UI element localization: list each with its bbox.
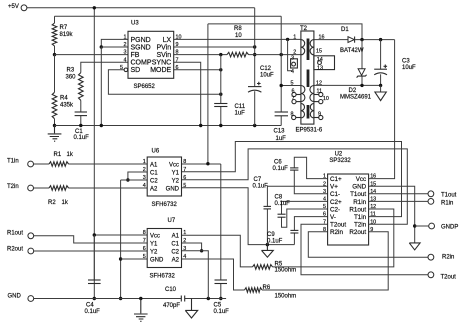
svg-text:D2: D2 (349, 88, 357, 94)
svg-text:470pF: 470pF (163, 303, 180, 309)
svg-text:C13: C13 (274, 129, 286, 135)
svg-text:8: 8 (183, 159, 186, 165)
svg-text:6: 6 (323, 212, 326, 218)
ground GNDP secondary top (C3) (375, 92, 386, 101)
svg-text:9: 9 (370, 227, 373, 233)
svg-text:R6: R6 (263, 285, 271, 291)
ground GNDP iso near C10 (185, 299, 197, 319)
svg-text:Vcc: Vcc (169, 162, 179, 168)
wire +5V rail top (27, 7, 255, 9)
resistor R3 (79, 73, 84, 101)
node C3 top dot (379, 38, 382, 41)
node Vcc viso dot (206, 162, 209, 165)
wire R5 to U2 R1out (273, 209, 394, 267)
wire primary ground rail y=125.5 (55, 125, 282, 127)
svg-text:C8: C8 (275, 195, 283, 201)
svg-text:Y1: Y1 (172, 170, 180, 176)
svg-text:R2out: R2out (349, 229, 366, 236)
svg-text:12: 12 (370, 204, 376, 210)
capacitor C1 (75, 111, 87, 113)
wire +5V to U7 Vcc (94, 234, 147, 236)
svg-text:12: 12 (316, 80, 322, 86)
wire feedback column down x=281.2 (280, 16, 282, 112)
svg-text:150ohm: 150ohm (275, 268, 297, 274)
winding arcs right (310, 40, 314, 55)
svg-text:8: 8 (176, 50, 179, 56)
node cathode rail dot (119, 297, 122, 300)
svg-text:4: 4 (291, 69, 294, 75)
node U7 cathode tie dot (200, 249, 203, 252)
svg-text:A1: A1 (150, 162, 158, 168)
wire SGND descent to ground rail (100, 47, 102, 126)
svg-text:SD: SD (131, 67, 141, 74)
GROUNDS (48, 92, 420, 321)
svg-text:R1in: R1in (441, 201, 453, 207)
WIRES-SECONDARY-TOP (314, 38, 395, 179)
svg-text:C2: C2 (171, 249, 179, 255)
diode D1 BAT42W (348, 37, 354, 43)
wire U2 pin15 GND to GNDP (369, 186, 415, 243)
DIODES (340, 27, 372, 101)
transformer core bars (307, 39, 310, 119)
wire U7 pin4 A2 to R6 (182, 259, 245, 290)
wire T2 pin16 to D1 anode (314, 39, 348, 41)
svg-text:4: 4 (323, 197, 326, 203)
terminal R2out (28, 248, 34, 254)
wire T2in to R2 (34, 187, 50, 189)
node PVin dot (253, 45, 256, 48)
zener D2 MMSZ4691 (358, 69, 365, 76)
wire C4 top stub (93, 235, 95, 280)
node GNDP wire dot (413, 224, 416, 227)
svg-text:8: 8 (323, 227, 326, 233)
svg-text:R3: R3 (67, 68, 75, 74)
WIRES-LOWER (34, 142, 429, 301)
node LX branch dot (286, 38, 289, 41)
wire secondary ground stub (380, 85, 382, 92)
svg-text:C7: C7 (254, 177, 262, 183)
WIRES-PRIMARY (27, 6, 362, 283)
wire D2 bottom stub (361, 76, 363, 86)
svg-text:FB: FB (131, 52, 140, 59)
svg-text:R4: R4 (60, 96, 68, 102)
svg-text:1: 1 (183, 230, 186, 236)
capacitor C7 (264, 205, 272, 207)
svg-text:C11: C11 (235, 104, 246, 110)
node pin5 dot (280, 84, 283, 87)
svg-text:T1out: T1out (350, 191, 366, 198)
node C4 rail dot (93, 297, 96, 300)
svg-text:13: 13 (317, 65, 323, 71)
ground GNDP right (U2 GND) (409, 243, 420, 250)
RESISTORS (48, 23, 296, 300)
svg-text:6: 6 (183, 175, 186, 181)
svg-text:9: 9 (318, 112, 321, 118)
svg-text:SYNC: SYNC (152, 60, 171, 67)
svg-text:R1out: R1out (349, 206, 366, 213)
svg-text:U7: U7 (168, 218, 176, 224)
svg-text:R8: R8 (234, 26, 242, 32)
wire isolated V+ rail y=23.9 (208, 24, 362, 40)
svg-text:7: 7 (183, 167, 186, 173)
wire C5 column x=220.8 (220, 164, 222, 280)
wire U3 pin9 PVin to +5V column (174, 46, 255, 48)
svg-text:7: 7 (143, 238, 146, 244)
svg-text:SGND: SGND (131, 44, 151, 51)
node FB junction dot (53, 53, 56, 56)
wire feedback rail y=15.9 from R7 top to x=281.2 (55, 15, 282, 17)
node SD-C11 dot (219, 93, 222, 96)
resistor R2 (49, 186, 69, 191)
svg-text:1uF: 1uF (276, 136, 287, 142)
capacitor C10 series in rail (180, 296, 182, 302)
svg-text:MMSZ4691: MMSZ4691 (340, 95, 372, 101)
svg-text:C5: C5 (214, 303, 222, 309)
svg-text:1k: 1k (62, 200, 69, 206)
wire U2 pin2 V+ to C7 (267, 186, 327, 206)
svg-text:U6: U6 (152, 149, 160, 155)
svg-text:R2in: R2in (442, 255, 454, 261)
svg-text:A2: A2 (150, 186, 158, 192)
terminal T2out (428, 272, 434, 278)
capacitor C9 (290, 229, 298, 231)
wire U7 pin1 A1 to R5 (182, 235, 253, 267)
wire T1in to R1 (34, 163, 50, 165)
node D2 bottom dot (360, 84, 363, 87)
terminal R1in (428, 199, 434, 205)
svg-text:SVin: SVin (157, 52, 172, 59)
terminal +5V (21, 5, 27, 11)
svg-text:A2: A2 (172, 257, 180, 263)
pins 6-7 stub circles left (292, 92, 296, 96)
svg-text:6: 6 (176, 65, 179, 71)
wire R1 to U6 pin1 (69, 163, 148, 165)
svg-text:C6: C6 (274, 160, 282, 166)
node C1 ground dot (79, 124, 82, 127)
wire C3 bottom stub (380, 74, 382, 85)
node SVin C11 dot (219, 53, 222, 56)
IC U2 SP3232 (323, 151, 376, 245)
svg-text:C1: C1 (150, 170, 158, 176)
svg-text:3: 3 (124, 50, 127, 56)
svg-text:T2in: T2in (7, 184, 19, 190)
node fb-column dot on pin2 line (280, 53, 283, 56)
svg-text:EP9531-6: EP9531-6 (296, 128, 323, 134)
svg-text:C10: C10 (165, 287, 177, 293)
pin 9 stub circle (319, 115, 323, 119)
node R4 ground dot (53, 124, 56, 127)
svg-text:T2out: T2out (441, 274, 457, 280)
svg-text:4: 4 (183, 254, 186, 260)
svg-text:10: 10 (370, 219, 376, 225)
node C11 rail dot (219, 124, 222, 127)
svg-text:4: 4 (143, 183, 146, 189)
svg-text:7: 7 (323, 219, 326, 225)
svg-text:T2out: T2out (330, 222, 346, 229)
pin 8 stub circle (292, 115, 296, 119)
svg-text:R2in: R2in (330, 229, 343, 236)
wire U3 pin10 LX to T2 pin1 (174, 38, 301, 40)
node SYNC ground dot (199, 124, 202, 127)
wire +5V vertical feed x=94.3 (93, 8, 95, 283)
wire C7 bottom to iso rail (266, 209, 268, 245)
svg-text:SP3232: SP3232 (329, 158, 351, 164)
svg-text:16: 16 (370, 174, 376, 180)
svg-text:0.1uF: 0.1uF (85, 309, 101, 315)
svg-text:819k: 819k (60, 32, 74, 38)
wire U3 pin6 MODE to C11 column (174, 69, 221, 71)
svg-text:U3: U3 (131, 21, 139, 27)
IC U6 SFH6732 (143, 149, 187, 209)
node C5 rail dot (219, 297, 222, 300)
resistor R5 (253, 265, 273, 270)
wire C13 bottom to ground rail end (280, 116, 282, 126)
svg-text:435k: 435k (60, 103, 74, 109)
node D2 top dot (360, 38, 363, 41)
CAPACITORS (74, 59, 417, 316)
wire C1 bottom to ground rail (80, 116, 82, 126)
svg-text:C1+: C1+ (330, 176, 342, 183)
svg-text:1: 1 (143, 159, 146, 165)
svg-text:U2: U2 (335, 151, 343, 157)
wire U6 pin7 Y1 route to U2 T1in (182, 142, 402, 217)
svg-text:0.1uF: 0.1uF (253, 184, 269, 190)
wire U2 pin14 T1out to terminal (369, 193, 428, 195)
wire D1 cathode to output node (355, 39, 395, 41)
wire C11 bottom to rail (220, 107, 222, 126)
terminal R2in (428, 254, 434, 260)
wire GNDP terminal (415, 225, 429, 227)
svg-text:D1: D1 (341, 27, 349, 33)
svg-text:GND: GND (166, 186, 180, 192)
svg-text:R7: R7 (60, 25, 68, 31)
svg-text:3: 3 (323, 189, 326, 195)
capacitor C13 (275, 111, 288, 113)
wire U3 pin5 SD route (108, 70, 220, 94)
svg-text:3: 3 (183, 246, 186, 252)
svg-text:0.1uF: 0.1uF (275, 201, 291, 207)
node SGND ground dot (100, 124, 103, 127)
svg-text:R1out: R1out (7, 231, 23, 237)
wire C3 top stub (380, 40, 382, 70)
svg-text:6: 6 (143, 246, 146, 252)
svg-text:C2: C2 (150, 178, 158, 184)
wire C11 column x=220.8 (220, 55, 222, 104)
svg-text:1: 1 (293, 35, 296, 41)
TRANSFORMER T2 EP9531-6 (291, 26, 335, 134)
svg-text:5: 5 (323, 204, 326, 210)
wire T2 pin5 to column (281, 85, 301, 87)
capacitor C11 (214, 103, 227, 105)
svg-text:Vcc: Vcc (150, 233, 160, 239)
resistor R4 (52, 92, 57, 118)
svg-text:5: 5 (291, 80, 294, 86)
terminal R1out (28, 233, 34, 239)
svg-text:MODE: MODE (150, 67, 171, 74)
svg-text:R1in: R1in (353, 199, 366, 206)
svg-text:14: 14 (317, 57, 323, 63)
svg-text:PVin: PVin (157, 44, 172, 51)
wire isolated V+ descent x=207.9 (207, 24, 209, 164)
resistor R6 (245, 288, 263, 293)
node C3 bottom dot (379, 84, 382, 87)
wire D2 top stub (361, 40, 363, 69)
wire U3 pin1 PGND (101, 39, 128, 47)
svg-text:13: 13 (370, 197, 376, 203)
wire R8 right to T2 pin2 (249, 54, 301, 56)
wire R1out jog to U7 Y1 (34, 236, 148, 243)
wire LX branch down to T2 pins3-4 (288, 39, 293, 70)
svg-text:7: 7 (292, 96, 295, 102)
svg-text:9: 9 (176, 42, 179, 48)
svg-text:V-: V- (330, 214, 336, 221)
svg-text:11: 11 (370, 212, 376, 218)
winding arcs left (301, 40, 305, 55)
wire cathode descent x=120.6 (120, 180, 122, 299)
svg-text:T1out: T1out (441, 192, 457, 198)
svg-text:10: 10 (235, 33, 242, 39)
svg-text:A1: A1 (172, 233, 180, 239)
wire U2 pin8 R2in to terminal (308, 232, 428, 257)
wire U7 pin2 C1 tie (182, 243, 202, 251)
wire T2 pin12 secondary return rail (314, 84, 381, 86)
svg-text:BAT42W: BAT42W (340, 48, 364, 54)
resistor R8 (227, 52, 249, 57)
capacitor C4 (88, 279, 101, 281)
wire U3 pin8 SVin to R8 (174, 54, 227, 56)
ground primary near R4 (48, 126, 62, 142)
wire U2 pin7 T2out to terminal (301, 224, 428, 275)
wire R4 top stub from FB junction (54, 55, 56, 93)
capacitor C5 (215, 279, 228, 281)
wire R7 bottom to FB junction (54, 46, 56, 55)
svg-text:SFH6732: SFH6732 (152, 202, 178, 208)
svg-text:1: 1 (124, 35, 127, 41)
wire U3 pin4 COMP to R3 (81, 62, 128, 72)
wire iso rail right of C10 (185, 298, 226, 300)
svg-text:R1: R1 (54, 152, 62, 158)
wire U2 pin6 V- to C9 (294, 217, 327, 231)
svg-text:1: 1 (323, 174, 326, 180)
svg-text:15: 15 (316, 49, 322, 55)
svg-text:SP6652: SP6652 (134, 84, 156, 90)
wire +5V column down x=254.7 (254, 8, 256, 87)
svg-text:10: 10 (323, 96, 329, 102)
wire C6 bottom to pin3 (294, 170, 327, 194)
svg-text:2: 2 (124, 42, 127, 48)
svg-text:T1in: T1in (7, 159, 19, 165)
svg-text:C2-: C2- (330, 206, 340, 213)
wire R2out to U7 Y2 (34, 250, 148, 252)
node U7 GND tie dot (119, 257, 122, 260)
wire GND terminal to rail (34, 298, 182, 300)
svg-text:10uF: 10uF (260, 73, 274, 79)
node MODE dot (219, 68, 222, 71)
wire R4 bottom to ground rail (54, 119, 56, 126)
node R8 +5V dot (253, 53, 256, 56)
wire U6 pin8 Vcc line (182, 163, 221, 165)
svg-text:SFH6732: SFH6732 (150, 274, 176, 280)
ground GNDP iso rail (C7) (262, 245, 274, 258)
node U6 cathode tie dot (126, 178, 129, 181)
wire R2 to U6 pin4 (69, 187, 148, 189)
svg-text:C3: C3 (402, 59, 410, 65)
svg-text:2: 2 (183, 238, 186, 244)
wire R3 bottom to C1 (80, 100, 82, 112)
svg-text:2: 2 (323, 181, 326, 187)
svg-text:5: 5 (120, 65, 123, 71)
svg-text:C1: C1 (171, 241, 179, 247)
svg-text:8: 8 (291, 112, 294, 118)
node U7 Vcc dot (93, 233, 96, 236)
svg-text:LX: LX (163, 37, 172, 44)
wire C5 bottom stub (220, 284, 222, 299)
svg-text:C9: C9 (267, 232, 275, 238)
svg-text:C4: C4 (86, 303, 94, 309)
pin 5 SD bubble (124, 68, 128, 72)
wire U2 pin13 R1in to terminal (369, 200, 428, 202)
svg-text:R2: R2 (48, 200, 56, 206)
capacitor C8 (278, 213, 286, 215)
svg-text:T2in: T2in (354, 222, 367, 229)
node GND symbol dot (139, 297, 142, 300)
svg-text:GND: GND (8, 294, 22, 300)
svg-text:C1-: C1- (330, 191, 340, 198)
node U7 cathode iso rail dot (207, 297, 210, 300)
wire U6 pin2 C1 tie (128, 172, 147, 180)
wire output descent to U2 Vcc (369, 40, 395, 179)
wire R6 to U2 R2out (262, 232, 388, 290)
IC U7 SFH6732 (143, 218, 187, 280)
svg-text:0.1uF: 0.1uF (267, 239, 283, 245)
svg-text:0.1uF: 0.1uF (74, 135, 90, 141)
svg-text:T2: T2 (300, 26, 308, 32)
svg-text:PGND: PGND (131, 37, 151, 44)
terminal T2in (28, 185, 34, 191)
terminal T1in (28, 161, 34, 167)
wire U3 pin2 SGND (101, 46, 128, 48)
svg-text:+5V: +5V (8, 4, 19, 10)
svg-text:10: 10 (176, 35, 182, 41)
svg-text:10uF: 10uF (402, 65, 416, 71)
svg-text:11: 11 (317, 89, 323, 95)
svg-text:14: 14 (370, 189, 376, 195)
pins 11-10 stub circles right (319, 92, 323, 96)
wire C9 bottom to iso rail end (293, 233, 295, 245)
wire C6 route pin1 (294, 157, 327, 178)
pins 3-4 loop box (291, 59, 298, 68)
capacitor C6 (290, 167, 298, 169)
svg-text:3: 3 (143, 175, 146, 181)
svg-text:Y2: Y2 (172, 178, 180, 184)
svg-text:GNDP: GNDP (441, 224, 458, 230)
svg-text:C2+: C2+ (330, 199, 342, 206)
wire FB line U3 pin3 (55, 54, 129, 56)
svg-text:Y2: Y2 (150, 249, 158, 255)
svg-text:T1in: T1in (354, 214, 367, 221)
svg-text:V+: V+ (330, 184, 338, 191)
wire U7 pin3 C2 to descent (182, 251, 209, 299)
wire C12 bottom to rail (254, 91, 256, 125)
wire U3 pin7 SYNC down to ground rail (174, 62, 201, 125)
svg-text:5: 5 (183, 183, 186, 189)
wire U2 pin4 C2+ to C8 (282, 201, 328, 214)
wire U6 pin3 C2 to descent (121, 179, 148, 181)
svg-text:0.1uF: 0.1uF (214, 309, 230, 315)
svg-text:1k: 1k (67, 152, 74, 158)
svg-text:R2out: R2out (7, 247, 23, 253)
svg-text:16: 16 (319, 35, 325, 41)
